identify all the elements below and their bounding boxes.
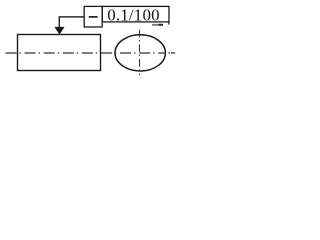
svg-text:0.1/100: 0.1/100 xyxy=(107,6,160,25)
